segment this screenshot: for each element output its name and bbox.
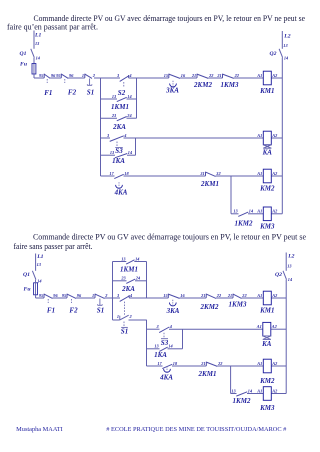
svg-text:Q1: Q1 [23,272,30,278]
svg-text:L2: L2 [287,253,294,259]
svg-text:A1: A1 [256,73,262,78]
fuse Fu (top) [20,61,36,74]
coil KM2 (bottom) [256,359,286,385]
contact F2 (NC thermal, bottom) [62,293,82,315]
svg-text:S1: S1 [121,327,128,335]
svg-text:1KM2: 1KM2 [233,397,251,405]
svg-text:faire qu’en passant par arrêt.: faire qu’en passant par arrêt. [7,22,98,31]
svg-text:18: 18 [173,361,178,366]
svg-text:A1: A1 [256,324,262,329]
wire 1KA row (bottom) [147,348,183,350]
svg-text:13: 13 [154,344,159,349]
contact 2KM2 (NC interlock, bottom) [200,293,222,311]
contact 3KA (NC, top) [164,73,186,95]
fuse Fu (bottom) [24,280,38,295]
wire rung 1KM2 (bottom) [231,393,260,395]
svg-text:3KA: 3KA [165,87,179,95]
svg-text:F1: F1 [44,89,52,97]
start button S2 (NO, top) [116,73,132,97]
svg-text:L1: L1 [34,32,41,38]
svg-text:14: 14 [288,277,293,282]
svg-text:16: 16 [180,293,185,298]
title text line 1 (top) [34,14,306,23]
breaker Q1 (bottom) [23,262,42,284]
svg-text:96: 96 [77,293,82,298]
wire main rail (bottom) [36,297,260,299]
svg-text:Q2: Q2 [275,272,282,278]
svg-text:F1: F1 [47,306,55,314]
svg-text:15: 15 [163,293,168,298]
contact F2 (NC thermal, top) [56,73,76,97]
svg-text:21: 21 [200,361,205,366]
svg-text:1KM1: 1KM1 [120,265,138,273]
svg-text:2KM1: 2KM1 [200,180,219,188]
wire S3 row (bottom) [147,328,260,330]
svg-text:S3: S3 [115,147,123,155]
svg-text:A1: A1 [256,133,262,138]
svg-text:Mustapha MAATI: Mustapha MAATI [16,426,63,433]
node L2 (bottom) [286,253,294,271]
svg-text:KA: KA [261,340,272,348]
start button S3 (NO, top) [106,133,127,155]
svg-text:95: 95 [39,293,44,298]
svg-text:2KA: 2KA [121,285,135,293]
node L1 (bottom) [36,254,44,271]
svg-text:16: 16 [181,73,186,78]
contact F1 (NC thermal, bottom) [39,293,59,315]
svg-text:2: 2 [104,293,108,298]
svg-text:3: 3 [116,293,120,298]
svg-text:32: 32 [215,171,221,176]
breaker Q2 (top) [270,43,290,61]
svg-text:1KA: 1KA [112,157,125,165]
contact 2KM2 (NC interlock, top) [191,73,214,89]
svg-text:21: 21 [216,73,221,78]
svg-text:13: 13 [112,94,117,99]
wire main rail (top) [34,77,260,79]
svg-text:KM2: KM2 [259,377,275,385]
svg-text:2KM2: 2KM2 [200,303,219,311]
node vertical left branch (top) [100,78,102,176]
svg-text:17: 17 [109,171,114,176]
svg-text:# ECOLE PRATIQUE DES MINE DE: # ECOLE PRATIQUE DES MINE DE TOUISSIT/OU… [106,426,286,433]
title text line 1 (bottom) [33,232,306,241]
node L2 (top) [282,31,290,49]
svg-text:96: 96 [53,293,58,298]
contact 4KA (NO delayed, bottom) [157,361,178,382]
svg-text:13: 13 [37,262,42,267]
coil KM3 (top) [256,207,282,231]
contact 2KM1 (NC interlock, top) [199,171,221,188]
svg-text:1KM3: 1KM3 [221,81,239,89]
svg-text:A1: A1 [256,171,262,176]
contact 1KM1 (NO aux, top) [111,94,132,111]
svg-text:14: 14 [168,344,173,349]
svg-text:Fu: Fu [20,61,27,67]
svg-text:14: 14 [128,150,133,155]
svg-text:2: 2 [129,314,133,319]
svg-text:4: 4 [123,133,127,138]
wire Q1 to fuse (top) [33,58,35,64]
svg-text:3: 3 [156,324,160,329]
contact 2KM1 (NC interlock, bottom) [198,361,224,378]
svg-text:Q1: Q1 [20,51,27,57]
svg-text:Fu: Fu [24,287,31,293]
svg-text:1: 1 [92,293,94,298]
wire right supply rail (bottom) [285,280,287,394]
svg-text:24: 24 [135,276,141,281]
coil KA (bottom) [256,322,286,347]
svg-text:A2: A2 [271,209,278,214]
svg-text:S2: S2 [118,89,126,97]
svg-text:KM2: KM2 [259,185,275,193]
svg-text:4: 4 [129,293,133,298]
contact 1KM3 (NC interlock, bottom) [227,293,248,309]
svg-text:23: 23 [120,276,126,281]
svg-text:A2: A2 [271,73,278,78]
contact 1KM1 (NO aux, bottom) [120,256,140,273]
svg-text:21: 21 [191,73,196,78]
svg-text:14: 14 [284,56,289,61]
svg-text:14: 14 [127,94,132,99]
svg-text:95: 95 [56,73,61,78]
contact 1KA (NO aux, bottom) [154,344,173,359]
svg-text:3KA: 3KA [166,307,180,315]
svg-text:13: 13 [283,43,288,48]
svg-text:13: 13 [233,209,238,214]
footer school text [106,426,286,433]
svg-text:14: 14 [135,256,140,261]
svg-text:2KA: 2KA [112,123,126,131]
wire fuse to rail (bottom) [35,295,37,298]
svg-text:1KA: 1KA [154,351,167,359]
svg-text:96: 96 [69,73,74,78]
svg-text:4: 4 [128,73,132,78]
svg-text:2KM1: 2KM1 [198,370,217,378]
svg-text:Q2: Q2 [270,51,277,57]
svg-text:22: 22 [241,293,247,298]
svg-text:15: 15 [164,73,169,78]
node vertical junction down (bottom) [112,298,114,320]
svg-text:A2: A2 [271,324,278,329]
wire rung 4KA (bottom) [147,365,260,367]
coil KM1 (bottom) [256,291,286,314]
svg-text:KM1: KM1 [259,87,274,95]
svg-text:14: 14 [249,209,254,214]
svg-text:2KM2: 2KM2 [193,81,212,89]
coil KA (top) [256,131,282,156]
wire rung4 (top) [231,213,260,215]
svg-text:13: 13 [35,41,40,46]
svg-text:A2: A2 [271,171,278,176]
contact 1KM2 (NO aux, bottom) [231,388,253,405]
svg-text:3: 3 [106,133,110,138]
start button S2 (NO, bottom) [116,293,133,316]
svg-text:18: 18 [124,171,129,176]
node vertical branch to KM3 (top) [230,176,232,214]
svg-text:A2: A2 [271,361,278,366]
coil KM2 (top) [256,169,282,192]
svg-text:13: 13 [287,264,292,269]
contact 4KA (NO delayed, top) [109,171,129,197]
svg-text:A2: A2 [271,133,278,138]
svg-text:3: 3 [116,73,120,78]
svg-text:24: 24 [126,113,132,118]
wire rung3 (top) [101,175,260,177]
svg-text:L2: L2 [283,33,290,39]
svg-text:1KM1: 1KM1 [111,103,129,111]
node vertical down to lower rungs (bottom) [146,320,148,366]
svg-text:22: 22 [217,361,223,366]
wire 1KA row (top) [101,154,136,156]
stop button S1 (NC, top) [82,73,96,97]
svg-text:A1: A1 [256,209,262,214]
svg-text:1KM3: 1KM3 [229,300,247,308]
svg-text:14: 14 [36,56,41,61]
svg-text:A2: A2 [271,388,278,393]
svg-text:22: 22 [208,73,214,78]
breaker Q2 (bottom) [275,264,293,283]
svg-text:21: 21 [227,293,232,298]
svg-text:22: 22 [216,293,222,298]
contact 1KA (NO aux, top) [110,150,133,165]
svg-text:A1: A1 [256,388,262,393]
svg-text:1: 1 [117,314,119,319]
svg-text:21: 21 [200,293,205,298]
svg-text:Commande directe PV ou GV avec: Commande directe PV ou GV avec démarrage… [33,232,306,241]
footer author text [16,426,63,433]
svg-text:A1: A1 [256,361,262,366]
wire 1KM1 row (top) [101,98,137,100]
svg-text:A2: A2 [271,293,278,298]
svg-text:95: 95 [39,73,44,78]
wire S1bar rung (bottom) [113,319,147,321]
svg-text:F2: F2 [69,306,78,314]
svg-text:KM3: KM3 [259,223,275,231]
svg-text:4: 4 [169,324,173,329]
svg-text:13: 13 [231,388,236,393]
svg-text:KM1: KM1 [259,307,274,315]
node vertical right of S2 (top) [136,78,138,118]
svg-text:4KA: 4KA [114,189,128,197]
contact 1KM2 (NO aux, top) [233,209,254,228]
svg-text:2: 2 [92,73,96,78]
svg-text:1: 1 [82,73,84,78]
svg-text:13: 13 [121,256,126,261]
svg-text:KA: KA [262,149,273,157]
svg-text:L1: L1 [36,254,43,260]
coil KM1 (top) [256,71,282,95]
svg-text:S1: S1 [97,306,104,314]
svg-text:13: 13 [110,150,115,155]
wire 1KM1 row (bottom) [113,261,147,263]
wire fuse to rail (top) [33,74,35,78]
stop button S1 (NC, bottom) [92,293,108,315]
wire 2KA row (bottom) [113,280,147,282]
svg-text:A1: A1 [256,293,262,298]
coil KM3 (bottom) [256,387,286,412]
node vertical junction up (bottom) [112,262,114,299]
wire right supply rail (top) [281,58,283,214]
contact F1 (NC thermal, top) [39,73,56,97]
svg-text:14: 14 [37,278,42,283]
node vertical branch to KM3 (bottom) [230,366,232,394]
contact 1KM3 (NC interlock, top) [216,73,239,89]
svg-text:KM3: KM3 [259,404,275,412]
contact S1bar (NO linked, bottom) [117,314,133,336]
svg-text:faire sans passer par arrêt.: faire sans passer par arrêt. [14,242,93,251]
title text line 2 (bottom) [14,242,93,251]
svg-text:31: 31 [199,171,204,176]
svg-text:22: 22 [234,73,240,78]
contact 2KA (NO aux, bottom) [120,276,141,293]
svg-text:F2: F2 [68,89,77,97]
svg-text:23: 23 [111,113,117,118]
svg-text:1KM2: 1KM2 [235,219,253,227]
svg-text:S1: S1 [87,89,94,97]
contact 3KA (NC, bottom) [163,293,185,315]
contact 2KA (NO aux, top) [111,113,133,131]
breaker Q1 (top) [20,41,41,60]
node vertical right of S3 (top) [135,138,137,155]
start button S3 (NO, bottom) [156,324,173,347]
wire 2KA row (top) [101,117,137,119]
svg-text:14: 14 [248,388,253,393]
svg-text:95: 95 [62,293,67,298]
node vertical right box (bottom) [146,262,148,299]
node L1 (top) [34,31,41,49]
svg-text:4KA: 4KA [159,373,173,381]
wire rung2 (top) [101,137,260,139]
node vertical right of S3 (bottom) [182,329,184,349]
title text line 2 (top) [7,22,98,31]
svg-text:17: 17 [157,361,162,366]
